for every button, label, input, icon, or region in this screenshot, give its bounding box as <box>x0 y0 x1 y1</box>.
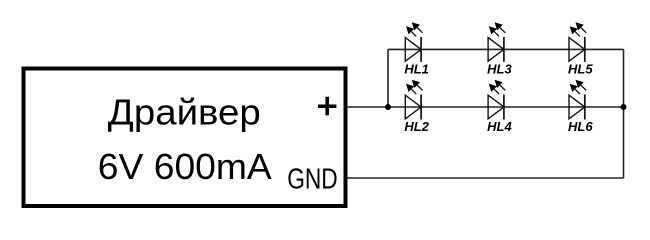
svg-text:GND: GND <box>287 163 338 195</box>
svg-text:6V 600mA: 6V 600mA <box>98 146 272 187</box>
svg-text:HL4: HL4 <box>487 119 512 134</box>
svg-text:HL2: HL2 <box>404 119 429 134</box>
svg-text:Драйвер: Драйвер <box>108 92 261 133</box>
svg-text:HL3: HL3 <box>487 62 512 77</box>
svg-text:HL5: HL5 <box>568 62 593 77</box>
svg-text:HL6: HL6 <box>568 119 593 134</box>
svg-text:HL1: HL1 <box>404 62 429 77</box>
